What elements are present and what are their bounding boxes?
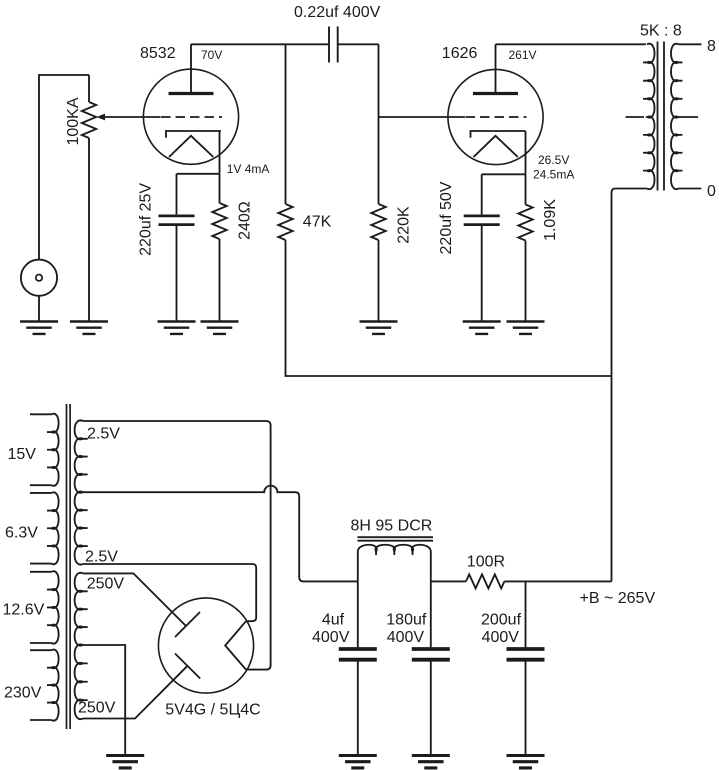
svg-text:8: 8 (707, 38, 716, 55)
svg-text:0.22uf 400V: 0.22uf 400V (294, 4, 381, 21)
wire wiper to V1 grid (104, 116, 161, 118)
capacitor C5 4uf top lead (357, 581, 359, 647)
wire 220K to ground (378, 240, 380, 322)
wire 100R to B+ node (504, 580, 611, 582)
rectifier V3 filament (225, 621, 246, 669)
wire HT top 250V to rectifier plate (83, 573, 186, 626)
ground (C4) (463, 322, 501, 334)
ground (HT center tap) (106, 756, 144, 768)
resistor R4 1.09K body (518, 205, 532, 241)
triode V2 1626 filament/heater (474, 136, 518, 157)
triode V2 1626 plate lead (495, 44, 497, 93)
PT T1 15V primary winding (52, 414, 59, 486)
wire jack sleeve to ground (38, 296, 40, 322)
resistor 220K body (371, 204, 385, 240)
OT T2 core (658, 42, 665, 191)
pot wiper arrow (97, 114, 106, 121)
resistor R2 240ohm body (212, 203, 226, 239)
capacitor C7 200uf top lead (525, 581, 527, 647)
PT 15V terminal stubs (30, 414, 52, 485)
wire secondary 8-ohm terminal (678, 43, 701, 45)
capacitor C6 bottom lead (430, 662, 432, 756)
PT T1 HT winding (75, 573, 83, 719)
svg-text:1V 4mA: 1V 4mA (227, 162, 270, 176)
svg-text:26.5V: 26.5V (538, 153, 569, 167)
OT T2 primary winding (647, 44, 655, 189)
wire grid node to V2 grid (379, 116, 466, 118)
wire choke out (431, 580, 466, 582)
triode V1 8532 envelope (143, 69, 238, 164)
OT T2 secondary mid tap stub (678, 116, 698, 118)
triode V1 8532 filament/heater (169, 136, 213, 157)
OT T2 primary cusp ticks (643, 62, 647, 170)
triode V1 8532 anode plate (169, 92, 214, 95)
svg-text:1626: 1626 (442, 45, 478, 62)
PT T1 12.6V primary winding (52, 571, 59, 643)
triode V1 8532 grid (dashed) (161, 116, 222, 118)
PT 12.6V terminal stubs (30, 572, 52, 643)
svg-text:2.5V: 2.5V (85, 549, 118, 566)
capacitor C4 220uf 50V top lead (481, 174, 483, 214)
capacitor C2 0.22uf plates (329, 27, 338, 63)
svg-text:5V4G / 5Ц4C: 5V4G / 5Ц4C (165, 702, 260, 719)
svg-text:1.09K: 1.09K (542, 199, 559, 241)
ground (R4) (507, 322, 545, 334)
wire 47K to B+ feed (286, 240, 612, 376)
resistor R2 bottom lead (219, 239, 221, 322)
svg-text:8H 95 DCR: 8H 95 DCR (351, 518, 433, 535)
svg-text:5K : 8: 5K : 8 (640, 23, 682, 40)
capacitor C3 220uf 25V top lead (176, 174, 178, 215)
capacitor C6 180uf top lead (430, 581, 432, 647)
resistor R2 240ohm top lead (219, 174, 221, 203)
wire jack hot to pot top (39, 75, 89, 260)
svg-text:100KA: 100KA (65, 97, 82, 145)
svg-text:+B ~ 265V: +B ~ 265V (580, 590, 656, 607)
svg-text:24.5mA: 24.5mA (533, 168, 574, 182)
wire V1 plate to C2 (191, 43, 329, 45)
potentiometer R1 100KA body (82, 102, 96, 138)
wire OT primary bottom to B+ rail (612, 189, 648, 582)
capacitor C3 bottom lead (176, 226, 178, 322)
svg-text:220uf 25V: 220uf 25V (138, 183, 155, 256)
svg-text:261V: 261V (509, 48, 537, 62)
potentiometer R1 100KA top lead (88, 75, 90, 102)
PT T1 230V primary winding (52, 650, 59, 721)
ground (R2) (201, 322, 239, 334)
svg-text:250V: 250V (78, 700, 116, 717)
svg-text:12.6V: 12.6V (3, 602, 45, 619)
PT T1 6.3V winding cusp ticks (47, 511, 52, 546)
svg-text:400V: 400V (312, 629, 350, 646)
svg-text:230V: 230V (4, 685, 42, 702)
ground (220K) (360, 322, 398, 334)
wire V1 cathode junction to C3 (177, 173, 220, 175)
wire grid node down (378, 44, 380, 204)
resistor 47K body (278, 204, 292, 240)
capacitor C7 bottom lead (525, 662, 527, 756)
svg-text:47K: 47K (303, 214, 332, 231)
svg-text:8532: 8532 (140, 45, 176, 62)
PT T1 5V winding cusp ticks (83, 439, 88, 546)
wire secondary 0 terminal (678, 188, 701, 190)
OT T2 secondary cusp ticks (679, 62, 683, 170)
svg-text:2.5V: 2.5V (87, 426, 120, 443)
rectifier V3 anode 2 (175, 654, 200, 679)
svg-text:220K: 220K (395, 206, 412, 244)
triode V2 1626 grid (dashed) (466, 116, 527, 118)
svg-text:180uf: 180uf (386, 612, 427, 629)
ground (C5) (339, 756, 377, 768)
OT T2 secondary winding (671, 44, 679, 189)
triode V1 8532 plate lead (190, 44, 192, 93)
rectifier V3 envelope (158, 598, 253, 693)
wire V2 cathode down (525, 131, 527, 174)
choke L1 core (358, 537, 434, 541)
wire B+ rail to 47K (285, 44, 287, 204)
choke L1 winding (358, 545, 431, 582)
svg-text:100R: 100R (467, 554, 505, 571)
wire filament CT with hop (83, 486, 358, 582)
resistor R4 1.09K top lead (525, 174, 527, 204)
triode V2 1626 envelope (448, 69, 543, 164)
wire C2 to V2 grid node (338, 43, 379, 45)
PT T1 12.6V winding cusp ticks (47, 590, 52, 626)
svg-text:400V: 400V (387, 629, 425, 646)
capacitor C5 plates (339, 649, 377, 660)
svg-text:240Ω: 240Ω (237, 201, 254, 240)
svg-text:0: 0 (707, 183, 716, 200)
ground (C7) (507, 756, 545, 768)
capacitor C6 plates (412, 649, 450, 660)
svg-text:15V: 15V (8, 446, 37, 463)
triode V1 8532 cathode (166, 131, 221, 138)
PT T1 6.3V primary winding (52, 492, 59, 564)
wire V2 cathode junction to C4 (482, 173, 526, 175)
wire V2 plate to OT primary (496, 43, 647, 45)
resistor R4 bottom lead (525, 241, 527, 322)
triode V2 1626 anode plate (473, 92, 518, 95)
PT T1 230V winding cusp ticks (47, 668, 52, 703)
PT T1 core (67, 404, 71, 729)
svg-text:250V: 250V (87, 576, 125, 593)
capacitor C5 bottom lead (357, 662, 359, 756)
capacitor C3 plates (159, 216, 195, 225)
capacitor C7 plates (507, 649, 545, 660)
svg-text:4uf: 4uf (322, 612, 345, 629)
svg-text:70V: 70V (201, 48, 222, 62)
ground (C3) (158, 322, 196, 334)
choke L1 cusp ticks (376, 552, 413, 556)
PT 230V terminal stubs (30, 650, 52, 720)
svg-text:400V: 400V (482, 629, 520, 646)
potentiometer R1 100KA bottom lead (88, 138, 90, 322)
wire HT center tap to ground (83, 645, 125, 756)
rectifier V3 anode 1 (175, 612, 200, 637)
capacitor C4 bottom lead (481, 226, 483, 322)
svg-text:200uf: 200uf (481, 612, 522, 629)
PT 6.3V terminal stubs (30, 493, 52, 564)
input jack J1 outer (21, 260, 57, 296)
OT T2 primary mid tap stub (626, 116, 645, 118)
ground (C6) (412, 756, 450, 768)
PT T1 15V winding cusp ticks (47, 432, 52, 467)
triode V2 1626 cathode (471, 131, 526, 138)
wire HT bottom 250V to rectifier plate (83, 666, 187, 718)
ground (input jack) (20, 322, 58, 334)
wire V1 cathode down (219, 131, 221, 174)
PT T1 5V filament winding (75, 420, 83, 564)
wire filament bottom 2.5V (83, 564, 256, 621)
svg-text:220uf 50V: 220uf 50V (438, 181, 455, 254)
capacitor C4 plates (464, 216, 500, 225)
ground (pot) (70, 322, 108, 334)
svg-text:6.3V: 6.3V (5, 525, 38, 542)
wire filament top 2.5V to rectifier (83, 421, 271, 670)
resistor R5 100R body (466, 574, 504, 588)
PT T1 HT winding cusp ticks (83, 591, 88, 700)
input jack J1 center pin (36, 275, 42, 281)
